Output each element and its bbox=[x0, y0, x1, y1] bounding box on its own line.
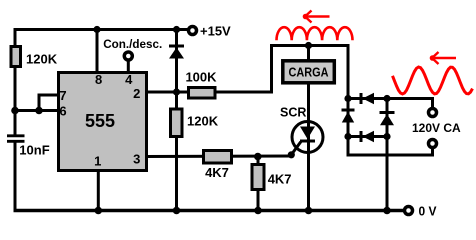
svg-text:10nF: 10nF bbox=[19, 142, 49, 157]
node load top bbox=[305, 42, 312, 49]
diode D3 left branch (points up) bbox=[342, 110, 355, 123]
node pin2 junction bbox=[173, 88, 180, 95]
terminal Con./desc. bbox=[124, 52, 132, 60]
wire pin3 bbox=[146, 155, 293, 159]
svg-text:Con./desc.: Con./desc. bbox=[103, 37, 162, 51]
wire 100K to load branch bbox=[177, 44, 272, 92]
node bus pin1 bbox=[95, 207, 103, 215]
wire AC neutral return bbox=[348, 137, 433, 156]
node bus R5 bbox=[254, 207, 262, 215]
node bus R3 bbox=[173, 207, 181, 215]
wire load frame top bbox=[272, 46, 349, 99]
diode D2 top (points left) bbox=[361, 93, 374, 104]
wire pin7 bbox=[39, 95, 58, 111]
resistor R4 4K7 bbox=[204, 151, 232, 164]
node left rail pin6 bbox=[11, 107, 19, 115]
wire SCR gate diagonal bbox=[291, 142, 301, 155]
wire bridge right branch bbox=[386, 99, 389, 137]
svg-text:555: 555 bbox=[85, 111, 115, 131]
arrow dot AC bbox=[430, 55, 436, 61]
svg-text:1: 1 bbox=[94, 153, 101, 168]
svg-text:SCR: SCR bbox=[280, 106, 306, 120]
inductor L1 coil bbox=[277, 27, 353, 40]
resistor R3 120K bbox=[171, 109, 183, 137]
svg-text:100K: 100K bbox=[185, 69, 217, 84]
node pin7 jog bbox=[35, 107, 43, 115]
resistor R2 100K bbox=[189, 88, 216, 99]
resistor R5 wire bbox=[257, 157, 260, 211]
svg-text:8: 8 bbox=[95, 72, 102, 87]
load CARGA box bbox=[283, 61, 335, 83]
node diode top junction bbox=[173, 26, 180, 33]
wire pin8 Vcc bbox=[96, 30, 99, 73]
diode D1 bbox=[169, 46, 184, 59]
terminal 0V bbox=[405, 207, 413, 215]
svg-text:6: 6 bbox=[59, 104, 66, 119]
arrow dot over coil bbox=[303, 14, 309, 20]
svg-text:+15V: +15V bbox=[200, 24, 231, 39]
bus 0V bbox=[14, 209, 405, 213]
wire bridge top to AC terminal bbox=[348, 99, 433, 109]
svg-text:4K7: 4K7 bbox=[268, 171, 292, 186]
svg-text:120V CA: 120V CA bbox=[412, 121, 461, 135]
wire top +15V rail bbox=[15, 30, 188, 211]
node bridge TL bbox=[344, 95, 351, 102]
SCR Q1 triangle bbox=[300, 127, 315, 140]
resistor R5 4K7 bbox=[252, 165, 264, 190]
svg-text:CARGA: CARGA bbox=[289, 66, 329, 80]
svg-text:4: 4 bbox=[125, 72, 133, 87]
svg-text:7: 7 bbox=[59, 88, 66, 103]
diode D1 wire bbox=[175, 30, 178, 93]
wire pin2 bbox=[146, 91, 177, 94]
SCR Q1 circle bbox=[292, 122, 323, 153]
resistor R3 wire bbox=[175, 92, 178, 211]
arrow AC direction bbox=[432, 52, 456, 64]
svg-text:120K: 120K bbox=[187, 114, 219, 129]
resistor R1 120K bbox=[11, 47, 21, 67]
node bus SCR bbox=[305, 207, 313, 215]
terminal 120V CA top bbox=[429, 109, 437, 117]
arrow current direction over coil bbox=[305, 11, 330, 23]
wire SCR anode/cathode vertical bbox=[307, 46, 310, 211]
svg-text:2: 2 bbox=[133, 86, 140, 101]
node bridge BR bbox=[383, 133, 390, 140]
svg-text:4K7: 4K7 bbox=[205, 165, 229, 180]
svg-text:0 V: 0 V bbox=[419, 204, 438, 218]
node pin8 top junction bbox=[93, 26, 100, 33]
SCR Q1 cathode bar bbox=[300, 140, 315, 143]
sine wave AC bbox=[393, 67, 473, 94]
diode D4 right branch (points up) bbox=[380, 113, 395, 126]
wire pin4 reset bbox=[127, 60, 130, 72]
IC U1 555 bbox=[59, 73, 147, 171]
svg-text:120K: 120K bbox=[26, 51, 58, 66]
node bus bridge bbox=[383, 207, 391, 215]
capacitor C1 10nF bbox=[7, 136, 25, 142]
terminal +15V bbox=[189, 27, 197, 35]
node gate branch bbox=[254, 153, 262, 161]
svg-text:3: 3 bbox=[133, 151, 140, 166]
terminal 120V CA bottom bbox=[429, 140, 437, 148]
wire bridge left branch bbox=[347, 99, 350, 137]
wire bridge bottom bbox=[348, 135, 387, 138]
wire bridge DC minus bbox=[386, 137, 389, 211]
diode D5 bottom (points left) bbox=[361, 131, 374, 142]
node gate end bbox=[288, 151, 295, 158]
node bridge BL bbox=[344, 133, 351, 140]
wire pin1 ground bbox=[97, 170, 100, 211]
wire pin6 bbox=[15, 109, 58, 112]
node bridge TR bbox=[383, 95, 390, 102]
